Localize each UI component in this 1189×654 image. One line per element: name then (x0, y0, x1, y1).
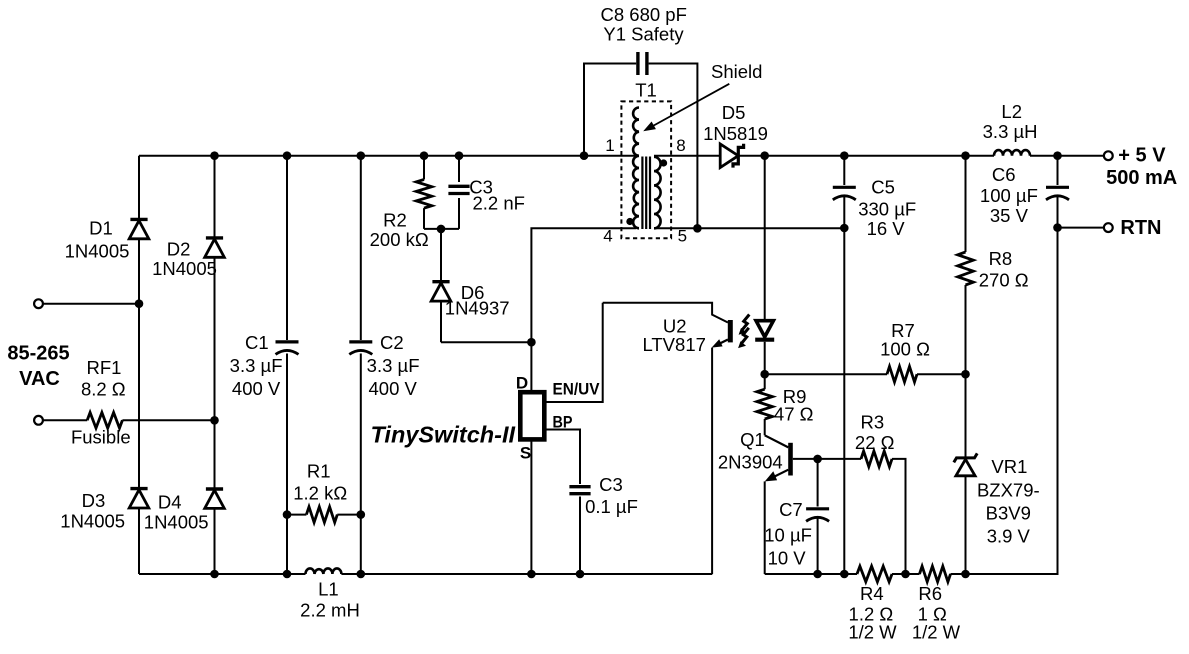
capacitor C6 (1057, 156, 1059, 574)
svg-text:RF1: RF1 (87, 357, 122, 378)
wire bottom bus primary (139, 573, 712, 575)
LED U2 photodiode (764, 156, 766, 375)
svg-text:270 Ω: 270 Ω (979, 270, 1029, 291)
svg-text:1N4005: 1N4005 (144, 511, 209, 532)
wire AC top lead (43, 303, 139, 305)
svg-text:1N5819: 1N5819 (703, 123, 768, 144)
wire D2/D4 vertical branch (214, 156, 216, 574)
svg-text:L1: L1 (318, 579, 339, 600)
wire clamp to drain (441, 341, 531, 343)
node clamp join (437, 225, 446, 234)
svg-text:D1: D1 (89, 218, 113, 239)
svg-text:400 V: 400 V (369, 378, 418, 399)
op-amp U1 TinySwitch-II IC body (520, 392, 544, 439)
wire top bus primary (139, 155, 636, 157)
wire pin8 to D5 (654, 155, 720, 157)
svg-text:8.2 Ω: 8.2 Ω (81, 379, 126, 400)
diode D2 (206, 236, 223, 239)
node base/C7 junction (813, 455, 822, 464)
wire secondary pin5 return (654, 227, 844, 229)
transistor U2 phototransistor bar (728, 320, 733, 342)
svg-text:10 V: 10 V (768, 547, 807, 568)
svg-text:C3: C3 (599, 474, 623, 495)
svg-text:VAC: VAC (19, 368, 60, 390)
resistor R6 (920, 566, 951, 582)
svg-text:R4: R4 (860, 583, 884, 604)
svg-text:200 kΩ: 200 kΩ (370, 229, 429, 250)
transformer T1 core (642, 157, 650, 230)
wire D1/D3 vertical branch (138, 156, 140, 574)
opto light arrows (742, 315, 750, 331)
diode D6 (440, 229, 442, 342)
resistor R8 (965, 156, 967, 375)
capacitor C7 (817, 459, 819, 574)
svg-text:LTV817: LTV817 (642, 334, 705, 355)
svg-text:D: D (516, 373, 528, 392)
svg-text:0.1 µF: 0.1 µF (585, 496, 638, 517)
node feedback junction (760, 370, 769, 379)
wire clamp join (424, 228, 459, 230)
svg-text:C5: C5 (871, 177, 895, 198)
resistor R3 (861, 451, 892, 467)
wire BP pin (544, 430, 580, 485)
capacitor C8 Y1 safety (584, 64, 697, 229)
inductor L1 (306, 568, 342, 574)
svg-text:3.9 V: 3.9 V (987, 525, 1031, 546)
diode D5 schottky (720, 144, 738, 168)
svg-text:1.2 kΩ: 1.2 kΩ (293, 483, 347, 504)
wire transformer pin4 to drain (531, 228, 636, 342)
resistor R7 (765, 373, 966, 375)
wire D pin (530, 342, 532, 392)
capacitor C5 (843, 156, 845, 574)
terminal AC input top (34, 299, 43, 308)
diode D4 (206, 487, 223, 490)
node bottom bus secondary dots (813, 570, 822, 579)
svg-text:100 Ω: 100 Ω (880, 339, 930, 360)
node AC input top junction (135, 299, 144, 308)
node pin5 / C8 junction (693, 224, 702, 233)
svg-text:TinySwitch-II: TinySwitch-II (371, 422, 516, 448)
wire Q1 base / R3 (793, 459, 906, 574)
svg-text:L2: L2 (1001, 101, 1022, 122)
svg-text:1N4005: 1N4005 (152, 258, 217, 279)
svg-text:R6: R6 (918, 583, 942, 604)
resistor R2 (423, 156, 425, 229)
svg-text:Q1: Q1 (740, 429, 765, 450)
terminal +5V output (1104, 151, 1113, 160)
svg-text:2.2 nF: 2.2 nF (472, 192, 524, 213)
svg-text:+ 5 V: + 5 V (1118, 145, 1166, 167)
capacitor C2 (360, 156, 362, 574)
svg-text:Y1 Safety: Y1 Safety (603, 23, 684, 44)
node bottom bus dots (210, 570, 219, 579)
capacitor C3 2.2nF (458, 156, 460, 229)
svg-text:1N4005: 1N4005 (60, 511, 125, 532)
svg-text:3.3 µF: 3.3 µF (230, 355, 283, 376)
svg-text:5: 5 (678, 227, 687, 246)
wire bottom bus secondary (765, 228, 1058, 574)
resistor R9 (764, 374, 766, 435)
node top bus dots (210, 151, 219, 160)
svg-text:D5: D5 (722, 102, 746, 123)
svg-text:3.3 µH: 3.3 µH (983, 121, 1038, 142)
resistor R4 (857, 566, 892, 582)
svg-text:R3: R3 (860, 412, 884, 433)
svg-text:RTN: RTN (1120, 217, 1161, 239)
transformer T1 primary+shield winding (633, 108, 639, 229)
svg-text:D3: D3 (82, 490, 106, 511)
svg-text:B3V9: B3V9 (986, 502, 1031, 523)
svg-text:100 µF: 100 µF (980, 185, 1038, 206)
wire D5 out / top bus secondary (738, 155, 1103, 157)
svg-text:1N4937: 1N4937 (445, 298, 510, 319)
svg-text:35 V: 35 V (990, 205, 1029, 226)
capacitor C3 0.1uF bypass (569, 485, 590, 488)
node D5 output (760, 151, 769, 160)
svg-text:C1: C1 (245, 332, 269, 353)
wire S pin (530, 439, 532, 574)
node C5 top (840, 151, 849, 160)
svg-text:T1: T1 (635, 79, 657, 100)
svg-text:D2: D2 (167, 239, 191, 260)
svg-text:EN/UV: EN/UV (553, 379, 601, 398)
svg-text:R8: R8 (989, 248, 1013, 269)
node drain junction (527, 338, 536, 347)
svg-text:1/2 W: 1/2 W (848, 622, 897, 643)
terminal AC input bottom (34, 416, 43, 425)
svg-text:1/2 W: 1/2 W (912, 622, 961, 643)
svg-text:22 Ω: 22 Ω (855, 432, 895, 453)
transformer T1 dashed box (621, 101, 671, 238)
inductor L2 (994, 150, 1030, 156)
transistor Q1 2N3904 (765, 435, 789, 447)
svg-text:16 V: 16 V (867, 218, 906, 239)
svg-text:C8 680 pF: C8 680 pF (601, 4, 687, 25)
svg-text:500 mA: 500 mA (1106, 167, 1177, 189)
svg-text:85-265: 85-265 (7, 343, 69, 365)
wire opto emitter (716, 340, 728, 346)
terminal RTN (1058, 227, 1104, 229)
svg-text:4: 4 (603, 227, 612, 246)
diode D3 (130, 487, 147, 490)
svg-text:Fusible: Fusible (71, 427, 131, 448)
resistor R1 (287, 514, 361, 516)
node T1 primary phase dot (626, 218, 633, 225)
svg-text:330 µF: 330 µF (858, 199, 916, 220)
svg-text:C7: C7 (779, 499, 803, 520)
svg-text:47 Ω: 47 Ω (774, 403, 814, 424)
svg-text:8: 8 (676, 136, 685, 155)
diode D1 (130, 218, 147, 221)
resistor RF1 fusible (43, 419, 215, 421)
svg-text:BP: BP (553, 413, 573, 432)
svg-text:D4: D4 (158, 492, 182, 513)
svg-text:C6: C6 (992, 164, 1016, 185)
svg-text:S: S (520, 444, 531, 463)
svg-text:400 V: 400 V (232, 378, 281, 399)
svg-text:BZX79-: BZX79- (977, 479, 1040, 500)
wire EN/UV pin (544, 303, 602, 402)
svg-text:2N3904: 2N3904 (718, 452, 783, 473)
svg-text:2.2 mH: 2.2 mH (300, 600, 360, 621)
svg-text:1N4005: 1N4005 (65, 240, 130, 261)
svg-text:Shield: Shield (711, 61, 762, 82)
svg-text:3.3 µF: 3.3 µF (367, 355, 420, 376)
node R8 top (961, 151, 970, 160)
wire opto collector loop (603, 303, 728, 323)
zener VR1 (965, 374, 967, 574)
node L2 out (1053, 151, 1062, 160)
svg-text:VR1: VR1 (991, 456, 1027, 477)
capacitor C1 (286, 156, 288, 574)
transformer T1 secondary winding (654, 157, 661, 229)
svg-text:R2: R2 (383, 209, 407, 230)
svg-text:10 µF: 10 µF (764, 524, 812, 545)
node T1 secondary phase dot (660, 159, 667, 166)
node AC input bottom junction (210, 416, 219, 425)
svg-text:C2: C2 (380, 332, 404, 353)
svg-text:1: 1 (605, 136, 614, 155)
node RTN junction (1053, 223, 1062, 232)
svg-text:R1: R1 (307, 460, 331, 481)
